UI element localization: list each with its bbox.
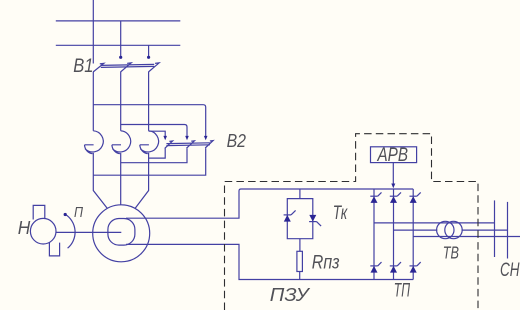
- bus bar 1: [56, 20, 181, 22]
- thyristor TP top 2: [390, 192, 401, 203]
- wire phase A drop: [92, 0, 94, 64]
- bridge TP branch 1: [373, 189, 375, 280]
- bus bar 2: [56, 44, 181, 46]
- rotation arrow dot: [64, 213, 67, 216]
- SN bus bar 2: [507, 202, 509, 259]
- arrow ARV to rail: [391, 184, 395, 189]
- exciter H top brush block: [33, 205, 45, 219]
- wire B2 pole2 return to phase B: [121, 148, 187, 163]
- wire phase C tap: [148, 45, 150, 57]
- breaker B1 double bar: [101, 64, 154, 67]
- motor M outer circle: [93, 205, 150, 262]
- wire ARV to bridge: [392, 163, 394, 185]
- wire phase A to motor: [93, 153, 107, 209]
- breaker B1 blade pole 3: [148, 63, 159, 72]
- svg-text:Н: Н: [18, 218, 31, 238]
- current transformer hook phase C: [140, 131, 159, 154]
- thyristor key Tk frame: [287, 199, 313, 239]
- svg-text:ТВ: ТВ: [443, 243, 459, 263]
- wire phase B below B1: [120, 72, 122, 131]
- wire B2 pole1 return to phase C: [149, 148, 166, 158]
- wire field upper lead: [126, 189, 413, 218]
- thyristor TP top 3: [410, 192, 421, 203]
- node phase C tap dot: [147, 56, 150, 59]
- regulator ARV box: [371, 147, 417, 163]
- arrow into B2 pole 3: [204, 136, 208, 140]
- svg-text:В2: В2: [227, 130, 247, 151]
- wire bypass tap phase A to B2 pole 3: [93, 105, 205, 137]
- wire AC tap 3 off right: [413, 236, 520, 238]
- SN bus bar 1: [494, 200, 496, 257]
- wire phase C below B1: [148, 72, 150, 131]
- svg-text:АРВ: АРВ: [377, 145, 409, 166]
- svg-text:П: П: [74, 204, 83, 221]
- wire phase B tap: [120, 21, 122, 57]
- svg-text:ПЗУ: ПЗУ: [270, 285, 310, 305]
- switch B2 blade pole 3: [205, 141, 213, 148]
- motor rotor winding: [108, 219, 135, 246]
- thyristor TP bottom 3: [410, 262, 421, 273]
- svg-text:Rпз: Rпз: [312, 252, 340, 274]
- wire Tk to Rpz: [299, 239, 301, 252]
- thyristor Tk right (down): [309, 215, 321, 226]
- current transformer hook phase B: [112, 131, 131, 154]
- wire field lower lead: [126, 244, 413, 279]
- exciter H circle: [30, 218, 56, 244]
- wire Rpz to bottom rail: [299, 272, 301, 280]
- wire B2 pole3 return to phase A: [93, 148, 205, 175]
- rotation arrow arc: [65, 214, 75, 248]
- bridge TP branch 2: [393, 189, 395, 280]
- thyristor Tk left (up): [284, 210, 296, 221]
- wire phase B to motor: [120, 153, 122, 205]
- thyristor TP bottom 1: [370, 262, 381, 273]
- wire AC tap 1 to SN bar1: [374, 222, 495, 224]
- wire phase C to motor: [135, 153, 149, 209]
- wire phase A below B1: [92, 72, 94, 131]
- svg-text:ТП: ТП: [394, 280, 410, 301]
- arrow into B2 pole 2: [185, 136, 189, 140]
- shaft line from exciter: [56, 231, 121, 233]
- resistor Rpz: [297, 251, 303, 271]
- current transformer hook phase A: [85, 131, 104, 154]
- exciter H bottom brush block: [49, 242, 59, 256]
- transformer TB circle left: [437, 221, 454, 238]
- thyristor TP top 1: [370, 192, 381, 203]
- breaker B1 blade pole 2: [121, 63, 132, 72]
- svg-text:СН: СН: [500, 260, 520, 281]
- transformer TB circle right: [445, 221, 462, 238]
- switch B2 blade pole 1: [165, 141, 173, 148]
- node phase B tap dot: [119, 56, 122, 59]
- switch B2 blade pole 2: [187, 141, 195, 148]
- arrow into B2 pole 1: [163, 136, 167, 140]
- wire AC tap 2 to SN bar2: [394, 229, 508, 231]
- svg-text:В1: В1: [73, 55, 93, 77]
- breaker B1 blade pole 1: [93, 63, 104, 72]
- thyristor key Tk feed top: [299, 189, 301, 199]
- wire bypass tap phase B to B2 pole 2: [121, 125, 187, 137]
- wire bypass tap phase C to B2 pole 1: [149, 131, 166, 136]
- bridge TP branch 3: [412, 189, 414, 280]
- switch B2 double bar: [166, 143, 210, 146]
- thyristor TP bottom 2: [390, 262, 401, 273]
- svg-text:Тк: Тк: [333, 203, 348, 224]
- dashed enclosure left and top: [225, 134, 479, 310]
